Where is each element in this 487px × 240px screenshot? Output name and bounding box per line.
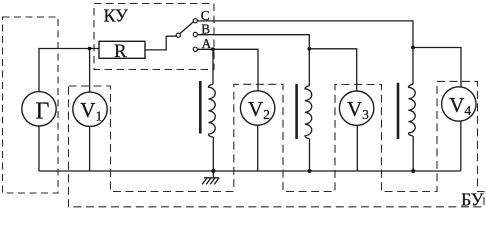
- switch arm: [180, 22, 193, 34]
- generator dashed box: [3, 17, 59, 193]
- КУ box: [94, 4, 214, 70]
- svg-text:R: R: [114, 41, 127, 62]
- transformer T2 core: [295, 84, 298, 139]
- transformer T2 winding: [305, 86, 312, 139]
- resistor R: [99, 41, 145, 58]
- svg-text:Г: Г: [36, 98, 50, 124]
- contact A: [193, 47, 197, 51]
- wire: V1 bottom: [89, 127, 91, 172]
- wire: T1 top feed: [212, 49, 214, 84]
- voltmeter V3: [339, 91, 373, 125]
- node: T2 bus junction: [308, 169, 312, 173]
- wire: branch to V3: [309, 49, 356, 92]
- wire: R output to switch wiper: [145, 36, 176, 50]
- generator Г: [22, 92, 56, 126]
- node: B branch junction: [307, 47, 311, 51]
- wire: T2 bottom: [309, 138, 311, 171]
- contact C: [193, 19, 197, 23]
- node: T3 bus junction: [411, 169, 415, 173]
- wire: phase C run: [197, 21, 413, 84]
- wire: T1 bottom: [212, 137, 214, 171]
- wire: phase B run: [197, 35, 309, 86]
- voltmeter V1: [73, 92, 107, 126]
- wire: V1 top: [89, 49, 91, 93]
- wire: T3 bottom: [412, 136, 414, 171]
- ground: [202, 171, 219, 184]
- transformer T3 core: [397, 83, 400, 139]
- wire: V4 bottom: [460, 121, 462, 171]
- switch wiper pivot: [176, 33, 180, 37]
- wire: generator bottom: [38, 126, 40, 171]
- voltmeter V4: [442, 87, 476, 121]
- node: T1 bus junction: [211, 169, 215, 173]
- node: A junction to T1: [211, 47, 215, 51]
- node: C branch junction: [411, 46, 415, 50]
- svg-text:КУ: КУ: [104, 6, 129, 26]
- transformer T3 winding: [409, 84, 416, 136]
- БУ comb outline: [69, 81, 485, 206]
- wire: phase A run: [197, 49, 258, 91]
- svg-text:БУ: БУ: [461, 190, 484, 210]
- transformer T1 winding: [209, 84, 216, 137]
- transformer T1 core: [199, 81, 202, 134]
- wire: branch to V4: [413, 48, 461, 88]
- wire: generator top to R input: [39, 49, 99, 92]
- wire: bottom bus: [39, 170, 461, 172]
- voltmeter V2: [240, 91, 274, 125]
- wire: V3 bottom: [356, 125, 358, 171]
- contact B: [193, 32, 197, 36]
- node: junction V1/R wire: [88, 47, 92, 51]
- wire: V2 bottom: [257, 125, 259, 171]
